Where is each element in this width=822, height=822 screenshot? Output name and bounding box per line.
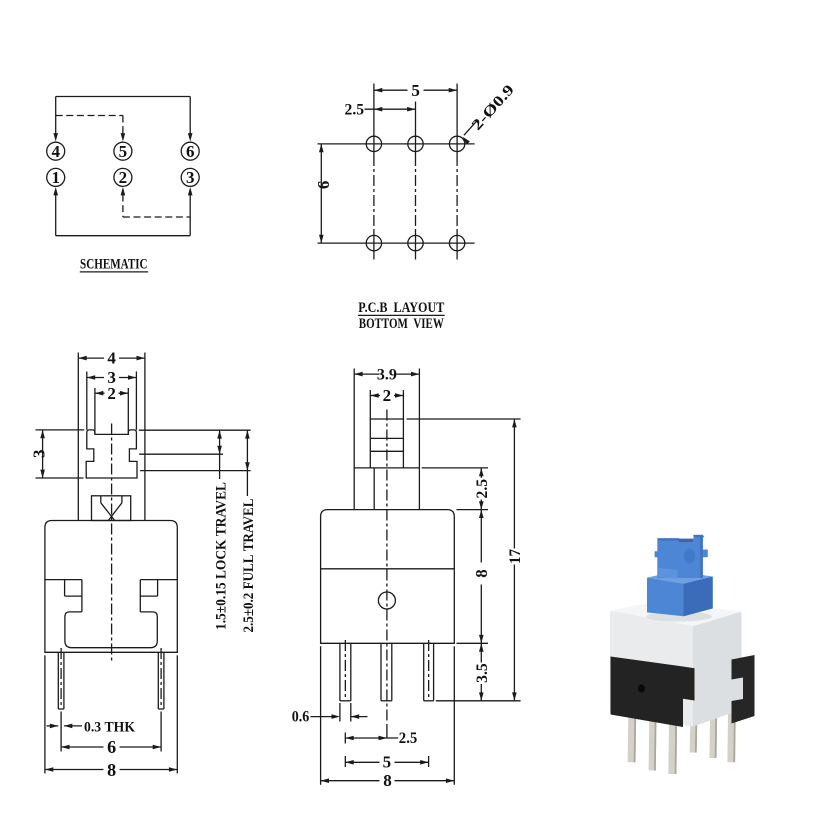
svg-text:4: 4	[107, 349, 116, 368]
dimension 6 (pin spacing front)	[61, 737, 161, 757]
dimension 6 (row spacing)	[314, 144, 333, 243]
side view collar	[354, 369, 419, 510]
front view left key slot	[65, 580, 82, 612]
front view vertical centerline	[111, 424, 113, 663]
dimension 5 (pin span side)	[345, 752, 428, 771]
side view pin 2	[381, 643, 392, 701]
svg-text:2.5: 2.5	[474, 479, 491, 499]
side view vertical centerline	[386, 410, 388, 739]
wire to pin 3	[188, 187, 193, 236]
pin 4 terminal	[47, 142, 65, 161]
pin 6 terminal	[181, 142, 199, 161]
pin 3 terminal	[181, 168, 199, 187]
svg-text:8: 8	[472, 569, 491, 578]
pin 1 terminal	[47, 168, 65, 187]
front view body step line	[45, 579, 177, 581]
svg-text:3.5: 3.5	[474, 663, 491, 683]
svg-text:2.5±0.2 FULL TRAVEL: 2.5±0.2 FULL TRAVEL	[241, 499, 257, 633]
svg-text:17: 17	[507, 549, 524, 564]
svg-text:3: 3	[186, 168, 195, 187]
svg-text:5: 5	[119, 142, 128, 161]
pad hole 1	[366, 136, 381, 151]
svg-text:0.3 THK: 0.3 THK	[84, 719, 135, 735]
pin 2 terminal	[114, 168, 132, 187]
dimension 3.9 (collar width)	[354, 367, 419, 384]
side view plunger stem	[370, 390, 403, 468]
dashed wire node 2 to pin 3 side	[121, 187, 191, 217]
dimension 17 (overall height)	[507, 419, 524, 701]
full travel label	[241, 499, 257, 633]
extension line body bottom right	[457, 642, 489, 644]
dimension 3 (cap width)	[87, 368, 137, 430]
wire top bus (pins 4-6 common frame)	[56, 96, 191, 98]
svg-text:6: 6	[107, 737, 116, 757]
photo: base hole	[638, 684, 645, 692]
svg-text:8: 8	[383, 771, 392, 790]
extension ticks for 5 dim	[345, 756, 428, 767]
pad row line top	[318, 143, 475, 145]
photo: blue button lower cube	[647, 571, 713, 616]
dimension 0.3 THK (pin thickness)	[47, 719, 136, 735]
photo: shadow under button	[646, 612, 712, 622]
svg-text:2.5: 2.5	[345, 102, 365, 119]
extension lines pin edges (0.6 dim)	[340, 703, 351, 722]
front view button cap outline	[86, 430, 137, 478]
front view inner recess outline	[65, 612, 157, 648]
wire to pin 6	[188, 97, 193, 142]
schematic title	[80, 256, 148, 272]
svg-text:4: 4	[51, 142, 60, 161]
side view body outline	[321, 510, 455, 644]
svg-text:SCHEMATIC: SCHEMATIC	[80, 256, 148, 272]
side view pin 3	[424, 640, 434, 701]
svg-text:2-Ø0.9: 2-Ø0.9	[469, 82, 518, 134]
pad hole 3	[449, 136, 464, 151]
front view cam window	[92, 496, 131, 521]
svg-text:1.5±0.15 LOCK TRAVEL: 1.5±0.15 LOCK TRAVEL	[214, 482, 230, 630]
dimension 4 (stem width)	[78, 349, 145, 368]
dimension 2.5 (pad pitch)	[345, 102, 416, 119]
front view plunger stem sides	[78, 353, 145, 521]
lock travel label	[214, 482, 230, 630]
side view pin 1	[340, 640, 351, 701]
wire to pin 1	[53, 187, 58, 236]
dimension 2.5 (collar height)	[474, 468, 491, 510]
photo: black base right	[732, 655, 755, 724]
svg-text:5: 5	[411, 81, 420, 100]
svg-text:8: 8	[107, 760, 116, 780]
svg-text:2: 2	[383, 386, 392, 405]
extension line body top right	[457, 509, 489, 511]
dashed wire node 4 to pin 5	[56, 116, 126, 142]
pad column centerline 2	[415, 102, 417, 260]
dimension 8 (body height)	[472, 510, 491, 644]
photo: switch white housing	[610, 602, 742, 727]
photo: switch pins	[628, 708, 736, 774]
front view right key slot	[140, 580, 157, 612]
dimension 5 (pad span)	[374, 81, 457, 100]
front view body outline	[45, 521, 177, 653]
svg-text:5: 5	[383, 752, 392, 771]
wire bottom bus (pins 1-3 common frame)	[56, 235, 191, 237]
wire to pin 4	[53, 97, 58, 142]
svg-text:2: 2	[119, 168, 128, 187]
svg-text:3: 3	[30, 450, 49, 459]
dimension 3 (cap height, left)	[30, 430, 85, 478]
dimension 3.5 (pin length)	[474, 643, 491, 701]
extension line stem top right	[407, 418, 521, 420]
pad column centerline 3	[456, 84, 458, 260]
pad hole 4	[366, 235, 381, 250]
dimension 2 (stem width side)	[370, 386, 403, 405]
pad column centerline 1	[373, 84, 375, 260]
side view hole	[378, 592, 395, 609]
full travel dimension 2.5	[140, 430, 251, 496]
svg-text:P.C.B LAYOUT: P.C.B LAYOUT	[358, 300, 444, 316]
svg-text:3.9: 3.9	[377, 367, 397, 384]
pin 5 terminal	[114, 142, 132, 161]
svg-text:2: 2	[107, 384, 116, 403]
front view right pin	[158, 648, 164, 752]
pad row line bottom	[318, 242, 475, 244]
svg-text:BOTTOM VIEW: BOTTOM VIEW	[359, 316, 444, 332]
dimension 8 (body width side)	[321, 646, 455, 790]
extension line pin bottom right	[436, 700, 521, 702]
dimension 8 (body width front)	[45, 655, 177, 780]
hole size label 2-&#216;0.9 with leader	[463, 82, 518, 145]
svg-text:6: 6	[186, 142, 195, 161]
pad hole 5	[408, 235, 423, 250]
extension tick for 2.5 dim	[344, 733, 346, 744]
lock travel dimension 1.5	[139, 430, 251, 479]
svg-text:2.5: 2.5	[399, 730, 418, 747]
extension line collar top right	[422, 467, 488, 469]
pcb layout title	[358, 300, 445, 332]
dimension 0.6 (pin width)	[292, 708, 368, 725]
dimension 2 (cap top width)	[95, 384, 128, 435]
photo: blue plunger top	[655, 535, 708, 579]
photo: black base front	[611, 657, 695, 728]
svg-text:0.6: 0.6	[292, 708, 310, 725]
dimension 2.5 (pin pitch side)	[345, 730, 417, 747]
svg-text:6: 6	[314, 181, 333, 190]
pad hole 2	[408, 136, 423, 151]
pad hole 6	[449, 235, 464, 250]
svg-text:1: 1	[51, 168, 60, 187]
front view left pin	[58, 648, 64, 752]
